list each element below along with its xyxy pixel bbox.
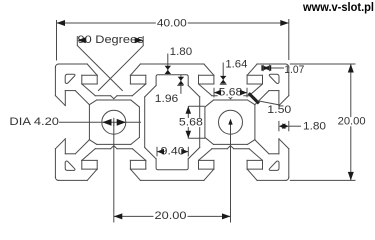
svg-text:DIA 4.20: DIA 4.20 (9, 116, 59, 128)
svg-text:1.07: 1.07 (284, 64, 304, 76)
svg-text:5.68: 5.68 (219, 87, 243, 99)
svg-text:1.64: 1.64 (225, 58, 247, 70)
svg-text:90 Degrees: 90 Degrees (78, 34, 145, 46)
svg-text:20.00: 20.00 (338, 116, 366, 128)
svg-text:40.00: 40.00 (157, 17, 187, 29)
svg-text:5.68: 5.68 (179, 117, 203, 129)
svg-text:1.80: 1.80 (303, 121, 326, 133)
svg-text:20.00: 20.00 (155, 210, 187, 222)
svg-text:1.96: 1.96 (155, 93, 179, 105)
svg-text:9.40: 9.40 (161, 146, 185, 158)
svg-text:1.50: 1.50 (267, 104, 291, 116)
svg-text:1.80: 1.80 (170, 46, 193, 58)
svg-text:www.v-slot.pl: www.v-slot.pl (302, 0, 374, 14)
